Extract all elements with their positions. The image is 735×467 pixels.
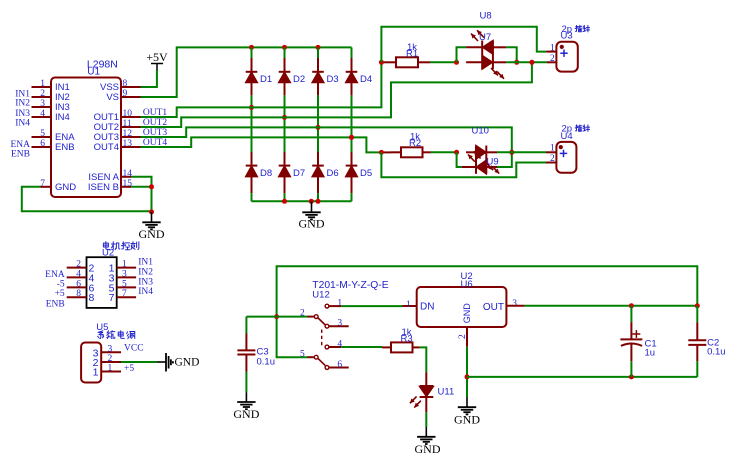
svg-text:D3: D3	[327, 74, 339, 85]
diode D7	[279, 152, 305, 193]
designator U8	[480, 10, 492, 21]
wire column D3 upper	[317, 47, 319, 58]
wire column D4 upper	[351, 47, 353, 58]
diode D6	[312, 152, 338, 193]
wire column D6 lower	[317, 193, 319, 201]
svg-text:R2: R2	[409, 138, 421, 149]
svg-text:1: 1	[550, 44, 555, 54]
wire column D2 upper	[284, 47, 286, 58]
svg-text:6: 6	[40, 139, 45, 149]
svg-text:D5: D5	[360, 168, 372, 179]
switch U12 T201-M-Y-Z-Q-E	[300, 280, 389, 370]
junction OUT4 on column	[349, 135, 354, 140]
net label ENA	[10, 140, 30, 150]
wire VS to diode rail	[141, 47, 352, 97]
wire R2 right to LED U9/U10	[431, 151, 457, 153]
wire ground rail bottom	[467, 376, 697, 378]
label 2p header U4	[562, 123, 590, 134]
wire LED to U3 pin2	[506, 61, 547, 63]
svg-text:R3: R3	[401, 333, 413, 344]
wire column D8 lower	[251, 193, 253, 201]
junction OUT C1	[629, 303, 634, 308]
wire column D7 lower	[284, 193, 286, 201]
svg-text:1: 1	[108, 364, 113, 374]
svg-text:8: 8	[123, 79, 128, 89]
wire net OUT4	[141, 137, 382, 152]
wire ISEN B	[131, 186, 152, 188]
resistor R2	[391, 131, 431, 157]
svg-text:ISEN B: ISEN B	[88, 182, 119, 193]
ground under U11	[415, 427, 441, 456]
svg-text:1: 1	[406, 300, 411, 310]
wire VSS to +5V	[141, 70, 157, 87]
svg-text:2: 2	[550, 154, 555, 164]
net label +5 at U2	[55, 289, 65, 299]
connector U5 system-power	[81, 343, 121, 383]
wire column D2-D7 middle	[284, 95, 286, 152]
wire column D1-D8 middle	[251, 95, 253, 152]
junction LED2 left node	[454, 150, 459, 155]
svg-text:0.1u: 0.1u	[707, 347, 726, 358]
svg-text:10: 10	[123, 109, 133, 119]
connector U4	[546, 131, 576, 173]
power +5V	[146, 50, 168, 71]
connector U2 motor-control	[67, 257, 136, 308]
svg-text:OUT: OUT	[483, 302, 504, 313]
net label -5 at U2	[57, 279, 65, 289]
svg-text:-5: -5	[57, 279, 65, 289]
wire net OUT2	[141, 62, 532, 127]
net label OUT4	[143, 138, 168, 148]
svg-text:U9: U9	[487, 157, 499, 168]
svg-text:GND: GND	[139, 227, 165, 241]
svg-text:14: 14	[123, 169, 133, 179]
ground under diode bridge	[299, 201, 325, 230]
svg-text:D2: D2	[293, 74, 305, 85]
svg-text:3: 3	[512, 299, 517, 309]
net label OUT3	[143, 128, 168, 138]
svg-text:+5V: +5V	[146, 50, 168, 64]
svg-text:IN1: IN1	[138, 258, 153, 268]
junction ISEN B	[149, 184, 154, 189]
resistor R1	[381, 42, 430, 67]
wire switch pin2	[277, 316, 308, 318]
svg-text:GND: GND	[175, 356, 200, 368]
svg-text:5: 5	[300, 350, 305, 360]
svg-text:1: 1	[122, 260, 127, 270]
regulator U6	[406, 271, 524, 347]
svg-text:DN: DN	[420, 302, 434, 313]
net label IN4 at U2	[138, 287, 153, 297]
svg-text:U1: U1	[87, 67, 100, 78]
svg-text:IN2: IN2	[15, 99, 30, 109]
net label ENA at U2	[45, 270, 65, 280]
svg-text:GND: GND	[299, 216, 325, 230]
svg-text:IN4: IN4	[55, 112, 70, 123]
wire OUT4 return to U4 pin2	[381, 152, 546, 177]
wire R3 to LED U11	[420, 347, 427, 372]
svg-text:8: 8	[89, 292, 95, 304]
svg-text:GND: GND	[55, 182, 76, 193]
capacitor C1 polarized	[620, 306, 656, 377]
svg-text:2: 2	[550, 54, 555, 64]
wire regulator feedback rail	[277, 266, 698, 357]
wire LED U7 upper loop left	[457, 47, 467, 62]
wire LED U9 lower loop right	[497, 152, 512, 167]
svg-text:1: 1	[40, 79, 45, 89]
ground under C3	[233, 393, 259, 421]
svg-text:U6: U6	[461, 279, 473, 290]
junction switch common	[274, 314, 279, 319]
junction R1 left	[379, 60, 384, 65]
net label IN1 at U2	[138, 258, 153, 268]
net label ENB at U2	[46, 299, 65, 309]
junction U6 ground rail	[465, 374, 470, 379]
wire LED2 to U4 pin1	[497, 151, 546, 153]
junction top rail D3	[316, 45, 321, 50]
junction top rail D1	[249, 45, 254, 50]
svg-text:GND: GND	[462, 303, 472, 324]
svg-text:U12: U12	[312, 290, 329, 301]
wire U11 to ground	[425, 412, 427, 427]
ground under U1	[139, 212, 165, 241]
svg-text:ENB: ENB	[46, 299, 65, 309]
svg-text:1: 1	[550, 144, 555, 154]
junction LED right node	[514, 60, 519, 65]
junction OUT2 on column	[282, 115, 287, 120]
LED pair U9/U10	[462, 146, 500, 174]
capacitor C2	[688, 306, 725, 377]
junction bottom rail D7	[282, 199, 287, 204]
wire OUT4 into R2	[381, 151, 391, 153]
wire column D5 lower	[351, 193, 353, 201]
designator U5	[96, 322, 108, 333]
LED pair U7/U8	[466, 30, 506, 79]
svg-text:4: 4	[76, 269, 81, 279]
net label ENB	[11, 149, 30, 159]
label motor control	[103, 242, 138, 250]
svg-text:+5: +5	[124, 364, 134, 374]
svg-text:+5: +5	[55, 289, 65, 299]
resistor R3	[382, 327, 420, 353]
svg-text:3: 3	[108, 344, 113, 354]
diode D8	[246, 152, 272, 193]
wire GND pin7 loop	[22, 187, 152, 211]
label system power	[98, 331, 135, 339]
wire U6 OUT	[524, 305, 697, 307]
svg-text:6: 6	[76, 279, 81, 289]
junction LED2 right node	[509, 150, 514, 155]
svg-text:5: 5	[122, 279, 127, 289]
svg-text:OUT4: OUT4	[94, 142, 119, 153]
svg-text:D1: D1	[260, 74, 272, 85]
junction R2 left	[379, 150, 384, 155]
svg-text:4: 4	[40, 109, 45, 119]
svg-text:2: 2	[300, 309, 305, 319]
svg-text:11: 11	[123, 119, 132, 129]
junction OUT3 on column	[316, 125, 321, 130]
svg-text:6: 6	[337, 360, 342, 370]
svg-text:ENB: ENB	[11, 149, 30, 159]
svg-text:2p: 2p	[562, 24, 573, 35]
svg-text:IN2: IN2	[138, 267, 153, 277]
junction top rail D2	[282, 45, 287, 50]
svg-text:ENB: ENB	[55, 142, 75, 153]
junction bottom rail D6	[316, 199, 321, 204]
wire column D1 upper	[251, 47, 253, 58]
designator U2	[102, 247, 114, 258]
connector U3	[546, 30, 578, 71]
svg-text:U11: U11	[438, 387, 455, 398]
label 2p header U3	[562, 24, 590, 35]
svg-text:12: 12	[123, 129, 133, 139]
svg-text:7: 7	[109, 292, 115, 304]
net label VCC	[124, 344, 144, 354]
diode D2	[279, 58, 305, 95]
LED U11	[410, 373, 454, 413]
junction LED left node	[454, 60, 459, 65]
svg-text:U8: U8	[480, 10, 492, 21]
svg-text:GND: GND	[454, 412, 480, 426]
svg-text:2: 2	[108, 354, 113, 364]
wire U5 pin2 to power ground	[121, 361, 157, 363]
wire U6 pin2 down	[466, 347, 468, 397]
net label IN4	[15, 118, 30, 128]
svg-text:U7: U7	[479, 32, 491, 43]
junction GND U1	[149, 209, 154, 214]
svg-text:D4: D4	[360, 74, 372, 85]
wire switch pin1 to U6 DN	[341, 305, 417, 307]
wire column D4-D5 middle	[351, 95, 353, 152]
svg-text:D8: D8	[260, 168, 272, 179]
net label IN3	[15, 109, 30, 119]
junction OUT4 D5	[349, 135, 354, 140]
svg-text:5: 5	[40, 129, 45, 139]
wire switch pin4 to R3	[341, 346, 382, 348]
svg-text:7: 7	[122, 289, 127, 299]
svg-text:IN4: IN4	[15, 118, 30, 128]
svg-text:15: 15	[123, 179, 133, 189]
net label IN2	[15, 99, 30, 109]
svg-text:1u: 1u	[645, 347, 656, 358]
wire diode bottom rail	[252, 200, 352, 202]
svg-text:2: 2	[76, 260, 81, 270]
junction C1 bottom	[629, 374, 634, 379]
net label OUT1	[143, 108, 168, 118]
net label IN1	[15, 89, 30, 99]
net label +5	[124, 364, 134, 374]
net label IN3 at U2	[138, 277, 153, 287]
svg-text:0.1u: 0.1u	[257, 356, 276, 367]
capacitor C3	[237, 317, 275, 393]
wire R1 right to LED U7/U8	[430, 61, 456, 63]
net label OUT2	[143, 118, 168, 128]
net label IN2 at U2	[138, 267, 153, 277]
junction OUT C2	[695, 303, 700, 308]
svg-text:1: 1	[93, 367, 99, 379]
wire column D3-D6 middle	[317, 95, 319, 152]
wire ISEN A	[131, 177, 152, 212]
svg-text:GND: GND	[233, 407, 259, 421]
svg-text:IN4: IN4	[138, 287, 153, 297]
svg-text:2p: 2p	[562, 123, 573, 134]
svg-text:8: 8	[76, 289, 81, 299]
wire net OUT3	[141, 127, 512, 152]
IC U1 L298N	[32, 58, 141, 197]
svg-text:3: 3	[122, 269, 127, 279]
wire LED U9 lower loop left	[457, 152, 462, 167]
svg-text:GND: GND	[415, 442, 441, 456]
junction OUT2 join	[529, 60, 534, 65]
diode D5	[346, 152, 372, 193]
svg-text:R1: R1	[406, 49, 418, 60]
svg-text:VCC: VCC	[124, 344, 144, 354]
ground under U6	[454, 397, 480, 426]
power ground at U5	[157, 353, 199, 372]
svg-text:ENA: ENA	[45, 270, 65, 280]
svg-text:9: 9	[123, 89, 128, 99]
svg-text:D7: D7	[293, 168, 305, 179]
svg-text:7: 7	[40, 179, 45, 189]
diode D3	[312, 58, 338, 95]
svg-text:IN3: IN3	[138, 277, 153, 287]
wire to C3	[246, 316, 276, 318]
svg-text:13: 13	[123, 139, 133, 149]
junction OUT1 on column	[249, 105, 254, 110]
wire net OUT1	[141, 62, 382, 117]
wire OUT1 top rail to U3 pin1	[381, 27, 546, 63]
svg-text:D6: D6	[327, 168, 339, 179]
svg-text:3: 3	[337, 319, 342, 329]
svg-text:U10: U10	[472, 126, 489, 137]
junction bottom rail gnd tap	[309, 199, 314, 204]
diode D1	[246, 58, 272, 95]
wire LED U7 upper loop right	[506, 47, 517, 62]
designator U10	[472, 126, 489, 137]
svg-text:VS: VS	[106, 92, 119, 103]
svg-text:2: 2	[40, 89, 45, 99]
diode D4	[346, 58, 372, 95]
svg-text:3: 3	[40, 99, 45, 109]
